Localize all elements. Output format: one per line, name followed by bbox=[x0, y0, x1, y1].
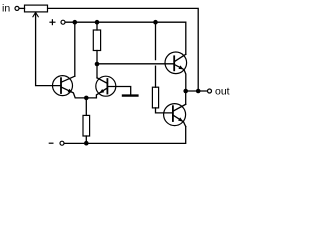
svg-text:in: in bbox=[2, 3, 10, 15]
svg-text:out: out bbox=[215, 86, 230, 98]
